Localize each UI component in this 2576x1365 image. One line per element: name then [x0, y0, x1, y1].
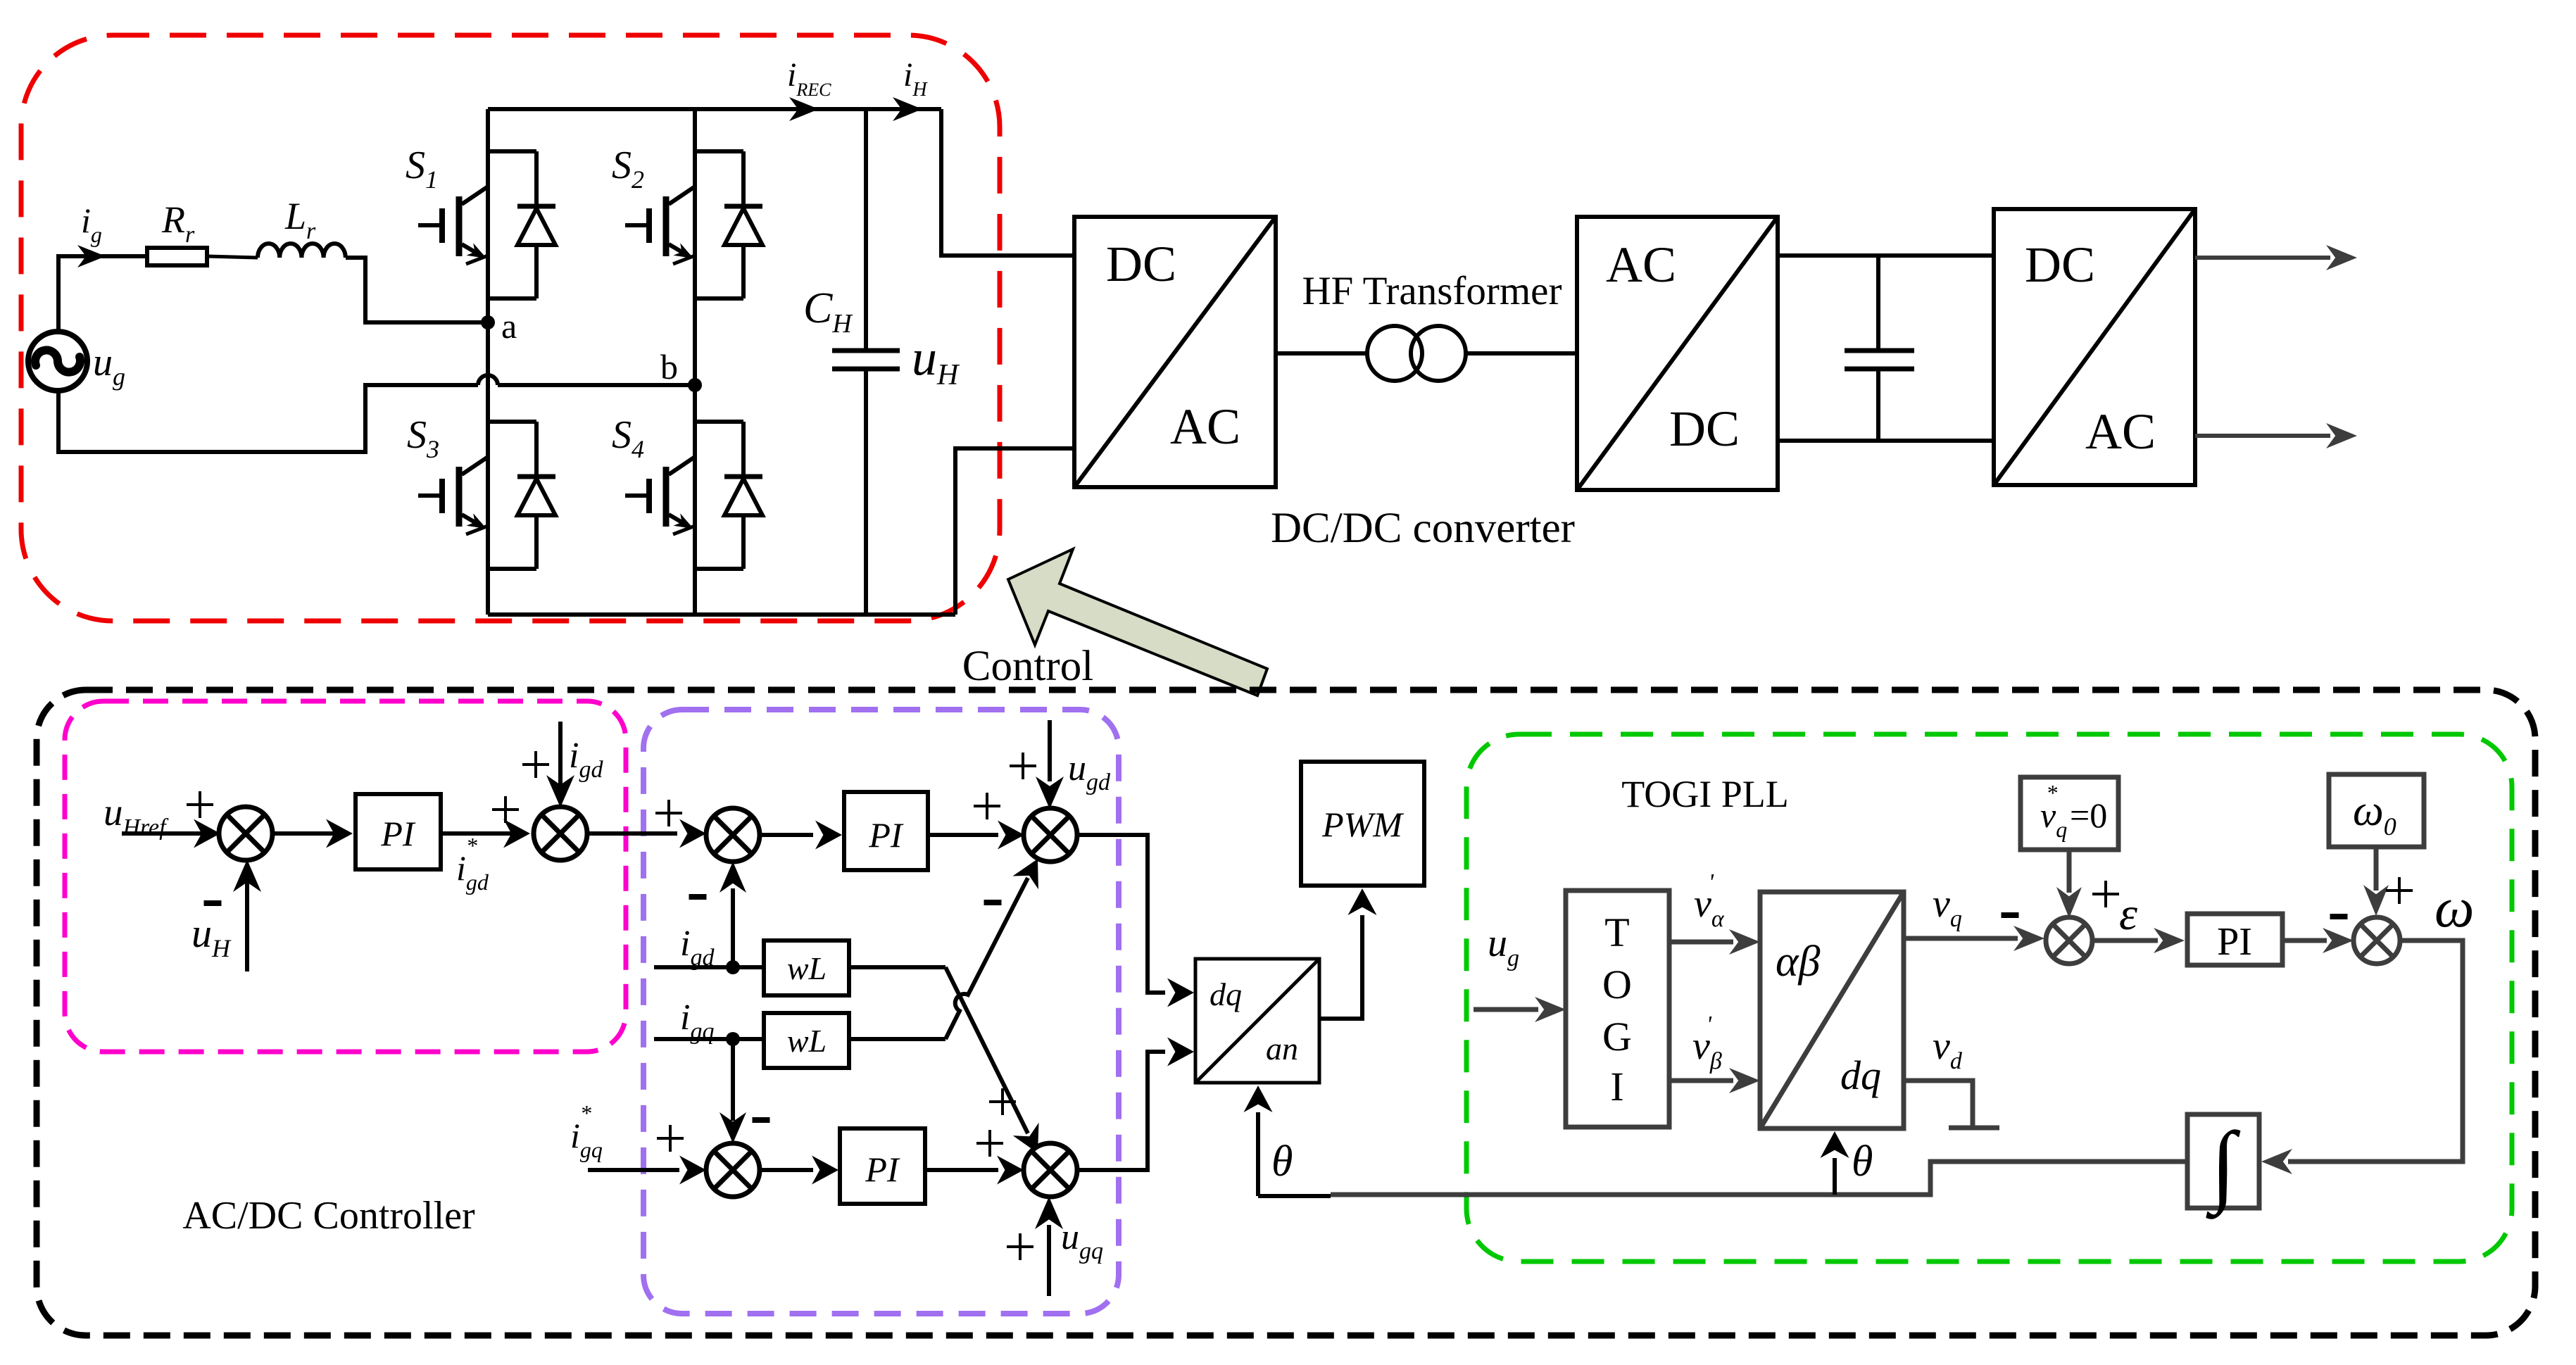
svg-text:PI: PI	[2217, 920, 2252, 964]
ug input arrow	[1474, 1007, 1538, 1012]
converter block U2 AC/DC	[1577, 217, 1778, 490]
transform block dq/an	[1195, 959, 1319, 1083]
wire PI1 to sum2	[441, 831, 525, 836]
igq to A2 arrow	[731, 1039, 735, 1121]
svg-text:ε: ε	[2119, 888, 2137, 940]
wire transformer to U2	[1466, 351, 1577, 356]
wire U2 to U3 top	[1778, 253, 1994, 258]
summing junction A2	[706, 1143, 760, 1197]
PWM block	[1301, 762, 1424, 886]
vd output wire	[1904, 1081, 1973, 1126]
plus sign omega0	[2386, 877, 2413, 904]
svg-text:αβ: αβ	[1776, 938, 1821, 986]
wire source-bottom loop	[58, 385, 478, 452]
IGBT S1 with diode	[418, 151, 555, 298]
svg-text:AC: AC	[2085, 403, 2156, 460]
wire dq to PWM	[1319, 915, 1362, 1019]
wire A2 to PI4	[758, 1168, 813, 1172]
svg-text:θ: θ	[1852, 1138, 1873, 1185]
vq* reference block	[2021, 777, 2118, 850]
IGBT S2 with diode	[625, 151, 762, 298]
v-beta wire	[1669, 1078, 1733, 1083]
vq* arrow down	[2067, 850, 2072, 893]
HF transformer T1	[1367, 326, 1466, 381]
igq tap wire	[654, 1037, 764, 1041]
wire bridge to DC/AC bottom	[955, 448, 1074, 615]
svg-text:θ: θ	[1271, 1138, 1293, 1185]
wire uHref to sum1	[122, 831, 215, 836]
PI block PI3	[2187, 914, 2282, 965]
svg-text:=0: =0	[2070, 795, 2107, 835]
PI block PI4	[840, 1128, 925, 1204]
i*gq input arrow	[588, 1168, 679, 1172]
plus sign into B2	[976, 1130, 1003, 1157]
PI block PI1	[356, 794, 441, 869]
wire U2 to U3 bottom	[1778, 439, 1994, 443]
svg-text:dq: dq	[1210, 976, 1242, 1012]
resistor Rr	[147, 248, 207, 265]
theta arrow into alphabeta block	[1833, 1158, 1837, 1195]
svg-text:an: an	[1266, 1031, 1298, 1067]
PI block PI2	[844, 792, 928, 870]
summing junction A1	[706, 808, 760, 862]
plus sign into sum2	[492, 796, 519, 823]
svg-text:ω: ω	[2434, 877, 2474, 939]
wire resistor to inductor	[207, 256, 258, 258]
wire source-top to resistor	[58, 256, 147, 332]
wire sum1 to PI1	[270, 831, 348, 836]
svg-text:AC/DC Controller: AC/DC Controller	[182, 1194, 475, 1238]
theta feedback wire	[1331, 1162, 2187, 1195]
wire B1 to dq block input1	[1076, 835, 1165, 993]
summing junction C1	[2046, 917, 2092, 964]
wire hop over leg a	[478, 375, 498, 385]
svg-text:b: b	[660, 347, 678, 386]
inductor Lr	[258, 244, 346, 258]
igd to A1 arrow	[731, 888, 735, 967]
svg-text:TOGI PLL: TOGI PLL	[1621, 773, 1789, 815]
svg-text:DC: DC	[1669, 401, 1740, 457]
integrator block	[2187, 1114, 2259, 1208]
svg-text:a: a	[501, 306, 517, 346]
control boundary (black dashed box)	[37, 690, 2535, 1335]
wire PI2 to B1	[928, 833, 998, 837]
transform block alphabeta/dq	[1760, 892, 1904, 1128]
current arrow ig	[77, 245, 106, 268]
svg-text:Control: Control	[962, 643, 1093, 690]
theta arrow into dq block	[1256, 1112, 1260, 1196]
wire C2 to integrator	[2288, 941, 2463, 1162]
omega0 block	[2329, 774, 2424, 847]
svg-text:PI: PI	[865, 1150, 900, 1189]
wire bridge to DC/AC top	[941, 109, 1074, 256]
minus sign uH	[204, 900, 222, 906]
omega0 arrow down	[2374, 847, 2379, 891]
plus sign into B1	[974, 793, 1000, 819]
summing junction C2	[2354, 917, 2400, 964]
PLL boundary (green dashed box)	[1466, 734, 2512, 1262]
minus sign into B1 (cross)	[984, 900, 1002, 905]
converter block U1 DC/AC	[1074, 217, 1276, 487]
svg-text:G: G	[1602, 1014, 1632, 1059]
svg-text:DC: DC	[2025, 237, 2095, 293]
wL block wL2	[764, 1013, 849, 1068]
plus sign into sumA1	[655, 800, 682, 826]
junction igd	[726, 960, 740, 974]
wire PI3 to C2	[2282, 938, 2327, 943]
output arrow top	[2195, 256, 2330, 260]
H-bridge top rail	[488, 107, 941, 111]
summing junction sum2	[534, 807, 587, 860]
plus sign ugd	[1010, 753, 1036, 779]
plus sign into B2 (cross)	[989, 1088, 1016, 1115]
rectifier boundary (red dashed box)	[21, 35, 1000, 621]
current loop boundary (purple dashed box)	[643, 710, 1119, 1314]
svg-text:DC/DC converter: DC/DC converter	[1271, 505, 1575, 552]
svg-text:PI: PI	[380, 814, 416, 853]
filter capacitor C2	[1845, 256, 1914, 441]
junction igq	[726, 1032, 740, 1046]
svg-text:O: O	[1602, 962, 1632, 1007]
summing junction sum1	[219, 807, 272, 860]
TOGI block	[1566, 891, 1669, 1127]
svg-text:I: I	[1610, 1064, 1623, 1109]
wL block wL1	[764, 941, 849, 995]
capacitor CH	[832, 109, 900, 615]
H-bridge right leg	[693, 109, 697, 615]
cross wire wL1 to B2	[945, 967, 1028, 1133]
AC source ug	[28, 332, 87, 391]
summing junction B2	[1024, 1143, 1077, 1197]
converter block U3 DC/AC	[1994, 209, 2195, 485]
theta wire black segment	[1258, 1194, 1331, 1198]
IGBT S3 with diode	[418, 422, 555, 569]
plus sign vq*	[2092, 881, 2119, 907]
svg-text:HF Transformer: HF Transformer	[1302, 269, 1562, 313]
minus sign into C2	[2330, 914, 2348, 919]
wL2 output wire	[849, 1037, 945, 1041]
svg-text:dq: dq	[1840, 1052, 1881, 1098]
cross wire wL2 to B1 with hop	[945, 878, 1028, 1039]
svg-text:AC: AC	[1170, 398, 1240, 455]
plus sign igd	[522, 751, 549, 778]
H-bridge bottom rail	[488, 612, 955, 617]
current arrow iH	[893, 97, 922, 121]
svg-text:PWM: PWM	[1321, 805, 1404, 844]
svg-text:PI: PI	[868, 815, 904, 855]
node b	[688, 378, 702, 392]
wL1 output wire	[849, 965, 945, 969]
svg-text:T: T	[1604, 910, 1629, 955]
voltage loop boundary (magenta dashed box)	[65, 701, 626, 1052]
callout arrow to rectifier	[1008, 549, 1267, 696]
wire B2 to dq block input2	[1076, 1052, 1165, 1170]
v-alpha wire	[1669, 940, 1733, 945]
wire sum2 to sumA1	[585, 831, 677, 836]
current arrow iREC	[789, 97, 819, 121]
output arrow bottom	[2195, 434, 2330, 438]
IGBT S4 with diode	[625, 422, 762, 569]
minus sign at A2	[753, 1117, 770, 1123]
H-bridge left leg	[486, 109, 490, 615]
plus sign into A2	[657, 1125, 684, 1152]
ugq input arrow	[1047, 1225, 1051, 1296]
svg-text:DC: DC	[1106, 236, 1176, 292]
uH feedback arrow	[245, 873, 249, 971]
igd input arrow	[558, 722, 563, 785]
minus sign at A1	[689, 894, 707, 900]
svg-text:wL: wL	[787, 1023, 827, 1059]
minus sign vq	[2002, 912, 2019, 918]
igd tap wire	[654, 965, 764, 969]
wire C1 to PI3	[2092, 938, 2158, 943]
ugd input arrow	[1048, 720, 1052, 781]
plus sign ugq	[1007, 1233, 1033, 1260]
wire inductor to node a	[346, 258, 488, 322]
wire PI4 to B2	[925, 1168, 998, 1172]
svg-text:AC: AC	[1606, 237, 1676, 293]
vd termination	[1949, 1126, 1999, 1131]
node a	[481, 315, 495, 329]
summing junction B1	[1024, 808, 1077, 862]
vq output wire	[1904, 936, 2018, 941]
plus sign at sum1	[187, 791, 213, 818]
svg-text:wL: wL	[787, 950, 827, 986]
wire A1 to PI2	[758, 833, 813, 837]
svg-text:∫: ∫	[2205, 1114, 2240, 1219]
wire U1 to transformer	[1276, 351, 1368, 356]
wire hop to node b	[498, 383, 695, 387]
